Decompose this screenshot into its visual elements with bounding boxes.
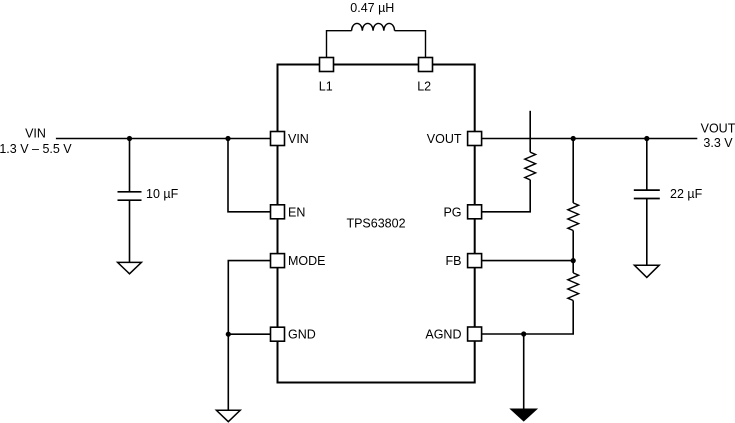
inductor L 0.47 uH: [352, 23, 395, 30]
wire C1 top: [129, 139, 131, 192]
wire L1 riser: [327, 31, 352, 58]
svg-text:1.3 V – 5.5 V: 1.3 V – 5.5 V: [0, 142, 72, 156]
pin AGND: [425, 327, 481, 342]
wire C2 top: [646, 139, 648, 190]
wire C1 bottom: [129, 200, 131, 262]
svg-text:VOUT: VOUT: [427, 132, 462, 146]
ground (open triangle, GND): [216, 410, 240, 421]
pin MODE: [271, 254, 326, 269]
wire R3 to AGND rail: [482, 301, 574, 335]
wire VIN input rail: [56, 138, 271, 140]
svg-text:AGND: AGND: [425, 328, 461, 342]
junction dot MODE/GND: [226, 332, 231, 337]
svg-text:VOUT: VOUT: [701, 122, 735, 136]
wire to ground under MODE: [227, 334, 229, 410]
power ground (filled triangle): [511, 409, 537, 421]
wire PG pull-up stub: [529, 111, 531, 152]
wire L2 riser: [395, 31, 426, 58]
op-amp U1 TPS63802 IC body: [278, 65, 475, 383]
junction dot VOUT/C2: [644, 136, 649, 141]
ground (open triangle, C2): [634, 265, 659, 277]
svg-text:PG: PG: [443, 205, 461, 219]
resistor R2 (VOUT to FB): [568, 203, 579, 231]
svg-text:10 µF: 10 µF: [146, 187, 179, 201]
resistor R3 (FB to AGND): [568, 273, 579, 301]
svg-text:0.47 µH: 0.47 µH: [350, 1, 394, 15]
svg-text:TPS63802: TPS63802: [346, 217, 405, 231]
wire R1 to PG: [482, 180, 531, 212]
pin GND: [271, 327, 316, 342]
wire EN branch: [228, 139, 271, 212]
wire GND: [228, 333, 270, 335]
pin VIN: [271, 132, 309, 147]
pin PG: [443, 205, 481, 220]
resistor R1 (PG pull-up): [525, 152, 536, 180]
wire divider top: [572, 139, 574, 203]
junction dot FB: [571, 258, 576, 263]
pin VOUT: [427, 132, 482, 147]
wire FB: [482, 260, 574, 262]
svg-text:FB: FB: [446, 254, 462, 268]
wire MODE branch: [228, 261, 270, 335]
pin L1: [319, 58, 334, 94]
junction dot AGND: [521, 331, 526, 336]
svg-text:VIN: VIN: [25, 127, 46, 141]
capacitor C2 22 uF: [634, 190, 660, 198]
ground (open triangle, C1): [118, 262, 142, 273]
pin L2: [417, 58, 432, 94]
pin EN: [271, 205, 306, 220]
wire AGND to power ground: [523, 334, 525, 409]
pin FB: [446, 254, 482, 269]
junction dot VOUT/divider: [571, 136, 576, 141]
svg-text:L2: L2: [417, 79, 431, 93]
wire FB node to R3: [572, 261, 574, 273]
svg-text:MODE: MODE: [288, 254, 326, 268]
wire R2 to FB node: [572, 231, 574, 261]
svg-text:22 µF: 22 µF: [670, 187, 703, 201]
wire C2 bottom: [646, 199, 648, 266]
svg-text:GND: GND: [288, 328, 316, 342]
junction dot VIN/EN: [225, 136, 230, 141]
wire VOUT rail: [482, 138, 698, 140]
svg-text:3.3 V: 3.3 V: [703, 136, 733, 150]
svg-text:L1: L1: [319, 79, 333, 93]
svg-text:EN: EN: [288, 205, 305, 219]
svg-text:VIN: VIN: [288, 132, 309, 146]
junction dot VIN/C1: [127, 136, 132, 141]
capacitor C1 10 uF: [118, 192, 142, 200]
